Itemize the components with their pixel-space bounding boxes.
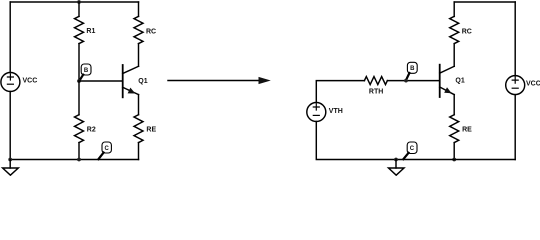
voltage source VCC (left) [1, 73, 37, 92]
resistor RC (left) [134, 2, 156, 66]
svg-text:B: B [410, 66, 415, 72]
svg-text:VCC: VCC [23, 77, 38, 84]
wire left column lower (VCC bottom lead) [9, 92, 11, 160]
wire top (left circuit) [10, 1, 138, 3]
node B (right) [404, 62, 417, 82]
junction R1 top [77, 0, 81, 4]
svg-text:C: C [410, 146, 415, 152]
svg-text:RE: RE [146, 127, 156, 134]
transistor Q1 (left) [123, 65, 148, 97]
resistor RTH [364, 77, 387, 96]
junction bottom-left [8, 158, 12, 162]
svg-text:VCC: VCC [526, 81, 540, 88]
wire top (right circuit) [454, 1, 515, 3]
svg-text:VTH: VTH [329, 108, 343, 115]
wire left column upper (VCC top lead) [9, 2, 11, 73]
svg-text:C: C [105, 146, 110, 152]
ground (right circuit) [389, 160, 405, 176]
voltage source VCC (right) [506, 76, 540, 95]
node C (left) [98, 142, 111, 159]
svg-text:B: B [84, 68, 89, 74]
ground (left circuit) [3, 160, 19, 176]
wire base (left circuit) [79, 80, 122, 82]
junction R2 bottom [77, 158, 81, 162]
svg-text:RC: RC [146, 28, 156, 35]
svg-text:R2: R2 [87, 127, 96, 134]
resistor R1 [75, 2, 96, 81]
wire VTH top lead [316, 81, 364, 103]
voltage source VTH [307, 103, 343, 122]
wire bottom (left circuit) [10, 159, 138, 161]
wire bottom (right circuit) [316, 122, 515, 160]
arrow (transform direction) [168, 77, 271, 84]
svg-text:Q1: Q1 [138, 78, 147, 85]
junction ground (right) [394, 158, 398, 162]
svg-text:Q1: Q1 [455, 77, 464, 84]
svg-text:RE: RE [462, 127, 472, 134]
node B (left) [77, 64, 91, 83]
wire RTH to base [387, 80, 439, 82]
wire VCC column [514, 2, 516, 160]
resistor RE (left) [134, 95, 156, 160]
resistor RE (right) [450, 95, 472, 160]
transistor Q1 (right) [440, 65, 465, 97]
svg-text:RC: RC [462, 28, 472, 35]
resistor RC (right) [450, 2, 472, 66]
svg-text:RTH: RTH [369, 89, 383, 96]
resistor R2 [75, 81, 96, 160]
svg-text:R1: R1 [86, 28, 95, 35]
junction RE bottom (right) [452, 158, 456, 162]
node C (right) [403, 142, 417, 159]
